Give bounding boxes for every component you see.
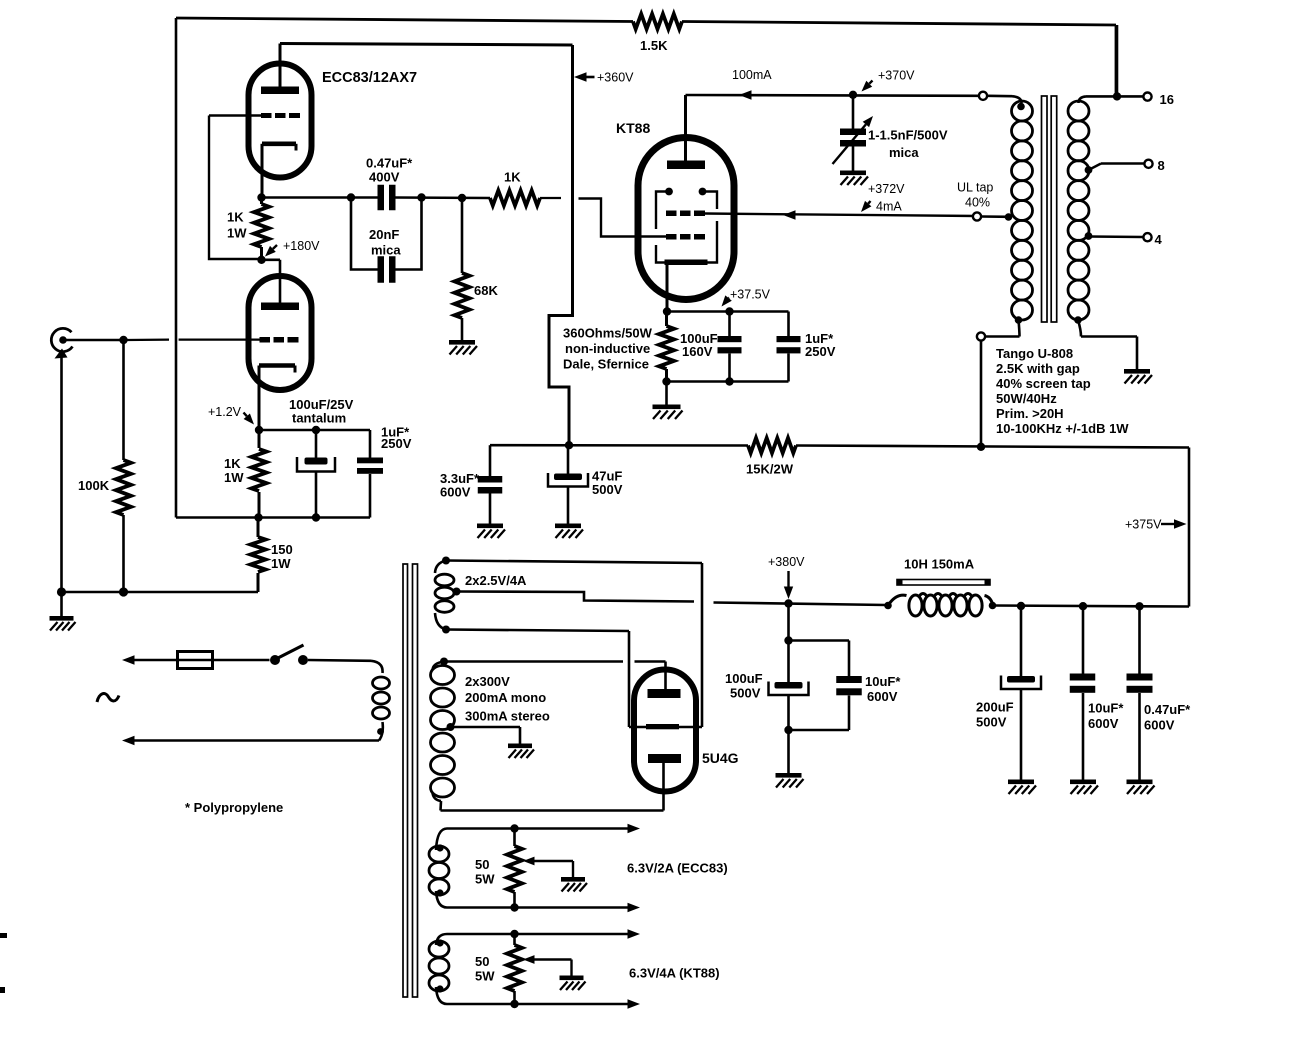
resistor 1.5K feedback bbox=[633, 14, 682, 29]
svg-text:+37.5V: +37.5V bbox=[730, 288, 771, 302]
edge artifact marks bbox=[0, 933, 7, 938]
wire secondary 4 ohm bbox=[1085, 232, 1093, 240]
svg-text:500V: 500V bbox=[730, 686, 761, 701]
wire 2.5V CT to B+ (+380V) bbox=[457, 592, 695, 602]
cathode V2 bbox=[665, 260, 708, 266]
svg-text:200uF: 200uF bbox=[976, 700, 1014, 715]
wire secondary 16 ohm bbox=[1086, 95, 1143, 98]
svg-text:2x300V: 2x300V bbox=[465, 674, 510, 689]
rectifier V3 5U4G bbox=[634, 670, 696, 792]
svg-text:500V: 500V bbox=[592, 482, 623, 497]
resistor 68K bbox=[461, 198, 464, 273]
wire cathode bypass top bbox=[667, 310, 789, 313]
svg-text:1K: 1K bbox=[227, 210, 244, 225]
mains line arrow top bbox=[122, 655, 135, 664]
capacitor 0.47uF* 400V bbox=[378, 185, 385, 211]
OPT secondary winding bbox=[1079, 96, 1087, 103]
svg-text:400V: 400V bbox=[369, 170, 400, 185]
wire input shield down bbox=[60, 356, 63, 592]
svg-text:160V: 160V bbox=[682, 344, 713, 359]
ground 10uF output bbox=[1070, 780, 1096, 785]
terminal 4 ohm bbox=[1143, 233, 1151, 241]
wire secondary 8 ohm bbox=[1085, 166, 1093, 174]
wire choke output rail bbox=[993, 606, 1189, 607]
ground first filter bbox=[787, 730, 790, 773]
ground input bbox=[60, 592, 63, 616]
resistor 150 1W bbox=[257, 518, 260, 538]
svg-text:1W: 1W bbox=[227, 226, 247, 241]
node input junction bbox=[119, 336, 127, 344]
svg-text:Prim. >20H: Prim. >20H bbox=[996, 406, 1064, 421]
heater winding 6.3V/2A + hum pot 50 5W bbox=[436, 829, 447, 851]
PT primary winding bbox=[371, 661, 383, 673]
svg-text:250V: 250V bbox=[805, 344, 836, 359]
PT core bbox=[403, 564, 408, 997]
ground 0.47uF bbox=[1127, 780, 1153, 785]
anode V1a bbox=[261, 303, 299, 311]
ground HV center tap bbox=[508, 744, 532, 749]
triode V1a ECC83 lower bbox=[249, 276, 312, 390]
ground 200uF bbox=[1008, 780, 1034, 785]
capacitor 10uF* 600V output bbox=[1082, 606, 1085, 673]
wire top rail bbox=[176, 18, 633, 22]
choke 10H 150mA bbox=[884, 602, 892, 610]
svg-text:15K/2W: 15K/2W bbox=[746, 462, 794, 477]
switch S1 bbox=[270, 655, 280, 665]
capacitor 100uF/25V tantalum bbox=[315, 430, 318, 458]
node +380V branch bbox=[784, 636, 792, 644]
capacitor 47uF 500V bbox=[567, 445, 570, 473]
svg-text:2x2.5V/4A: 2x2.5V/4A bbox=[465, 573, 527, 588]
choke core bar bbox=[897, 580, 990, 586]
svg-text:360Ohms/50W: 360Ohms/50W bbox=[563, 326, 653, 341]
svg-text:8: 8 bbox=[1158, 158, 1165, 173]
capacitor 100uF 160V bbox=[728, 312, 731, 337]
cathode V1b bbox=[262, 142, 296, 147]
wire feedback from output bbox=[175, 18, 178, 518]
svg-text:10-100KHz +/-1dB 1W: 10-100KHz +/-1dB 1W bbox=[996, 421, 1129, 436]
svg-text:200mA mono: 200mA mono bbox=[465, 690, 546, 705]
svg-text:6.3V/4A (KT88): 6.3V/4A (KT88) bbox=[629, 966, 720, 981]
label +360V bbox=[574, 72, 587, 81]
svg-text:+370V: +370V bbox=[878, 69, 915, 83]
svg-text:+380V: +380V bbox=[768, 555, 805, 569]
svg-text:4: 4 bbox=[1155, 232, 1163, 247]
terminal OPT primary bottom bbox=[977, 332, 985, 340]
wire HV top to rectifier anode bbox=[444, 660, 623, 663]
mains line arrow bottom bbox=[122, 736, 135, 745]
capacitor 200uF 500V bbox=[1020, 606, 1023, 676]
svg-text:16: 16 bbox=[1160, 92, 1174, 107]
capacitor 1uF* 250V cathode bbox=[369, 430, 372, 458]
ground snubber bbox=[840, 171, 866, 176]
wire to KT88 grid bbox=[579, 199, 668, 237]
grid V1b bbox=[261, 113, 272, 118]
resistor 360 Ohms bbox=[665, 312, 668, 327]
svg-text:+360V: +360V bbox=[597, 71, 634, 85]
svg-text:KT88: KT88 bbox=[616, 120, 650, 136]
wire cathode network top bbox=[259, 429, 370, 432]
wire cathode bypass bottom bbox=[667, 380, 789, 383]
capacitor 0.47uF* 600V bbox=[1138, 606, 1141, 673]
resistor 15K/2W bbox=[748, 438, 796, 453]
wire V1b anode to B+ dropper bbox=[280, 44, 573, 46]
anode V2 bbox=[667, 161, 705, 170]
terminal OPT primary top bbox=[979, 92, 987, 100]
svg-text:4mA: 4mA bbox=[876, 200, 902, 214]
wire B+ rail bbox=[490, 444, 748, 447]
wire 2.5V top to rectifier bbox=[446, 561, 702, 564]
svg-text:5W: 5W bbox=[475, 872, 495, 887]
wire 16 ohm to feedback bbox=[1116, 25, 1119, 96]
ground KT88 cathode bbox=[665, 382, 668, 405]
svg-text:+375V: +375V bbox=[1125, 518, 1162, 532]
ground 68K bbox=[449, 340, 475, 345]
svg-text:Tango U-808: Tango U-808 bbox=[996, 346, 1073, 361]
resistor 1K 1W lower bbox=[258, 430, 261, 448]
svg-text:0.47uF*: 0.47uF* bbox=[366, 156, 413, 171]
cathode V1a bbox=[259, 363, 295, 368]
node KT88 cathode bbox=[663, 307, 671, 315]
svg-text:250V: 250V bbox=[381, 436, 412, 451]
terminal 16 ohm bbox=[1143, 93, 1151, 101]
wire after coupling cap bbox=[396, 196, 491, 199]
svg-text:50: 50 bbox=[475, 857, 489, 872]
svg-text:1W: 1W bbox=[224, 470, 244, 485]
svg-text:ECC83/12AX7: ECC83/12AX7 bbox=[322, 70, 417, 86]
wire HV bottom to rectifier anode bbox=[441, 809, 664, 812]
anode 1 V3 bbox=[648, 689, 681, 698]
capacitor 10uF* 600V first bbox=[836, 676, 862, 683]
svg-text:600V: 600V bbox=[440, 485, 471, 500]
svg-text:10H 150mA: 10H 150mA bbox=[904, 557, 975, 572]
svg-text:40%: 40% bbox=[965, 196, 990, 210]
svg-text:10uF*: 10uF* bbox=[865, 674, 901, 689]
resistor 1K grid stopper bbox=[490, 191, 540, 206]
terminal OPT UL tap bbox=[973, 212, 981, 220]
capacitor 1uF* 250V bypass bbox=[787, 312, 790, 337]
wire to 10uF top bbox=[789, 639, 850, 642]
svg-text:Dale, Sfernice: Dale, Sfernice bbox=[563, 357, 649, 372]
svg-text:600V: 600V bbox=[867, 689, 898, 704]
svg-text:mica: mica bbox=[371, 243, 401, 258]
svg-text:100uF: 100uF bbox=[725, 671, 763, 686]
OPT primary winding bbox=[1012, 96, 1022, 103]
PT 2x300V winding bbox=[440, 658, 448, 666]
ground 3.3uF bbox=[477, 524, 503, 529]
resistor 1K 1W upper bbox=[260, 198, 263, 205]
capacitor 1-1.5nF/500V variable bbox=[852, 95, 855, 129]
node +1.2V bbox=[255, 426, 263, 434]
svg-text:1W: 1W bbox=[271, 556, 291, 571]
ground 47uF bbox=[555, 524, 581, 529]
OPT core bbox=[1042, 96, 1048, 322]
svg-text:100mA: 100mA bbox=[732, 68, 772, 82]
ground OPT secondary bbox=[1124, 369, 1150, 374]
svg-text:+372V: +372V bbox=[868, 182, 905, 196]
wire input to grid bbox=[66, 339, 124, 342]
capacitor 20nF mica bbox=[351, 198, 378, 270]
screen grid V2 bbox=[666, 211, 677, 217]
capacitor 100uF 500V bbox=[787, 641, 790, 683]
wire anode to OPT bbox=[686, 94, 979, 97]
svg-text:500V: 500V bbox=[976, 715, 1007, 730]
capacitor 3.3uF* 600V bbox=[489, 445, 492, 476]
svg-text:* Polypropylene: * Polypropylene bbox=[185, 800, 283, 815]
svg-text:5U4G: 5U4G bbox=[702, 750, 739, 766]
wire B+ rail down bbox=[1188, 448, 1191, 607]
svg-text:20nF: 20nF bbox=[369, 227, 399, 242]
wire V1b grid to V1a anode bbox=[209, 116, 262, 260]
node +180V bbox=[257, 256, 265, 264]
wire secondary ground bbox=[1081, 335, 1137, 338]
svg-text:1.5K: 1.5K bbox=[640, 38, 668, 53]
svg-text:2.5K with gap: 2.5K with gap bbox=[996, 361, 1080, 376]
svg-text:mica: mica bbox=[889, 145, 919, 160]
wire cathode network bottom bbox=[176, 516, 370, 519]
svg-text:+1.2V: +1.2V bbox=[208, 405, 242, 419]
svg-text:6.3V/2A (ECC83): 6.3V/2A (ECC83) bbox=[627, 861, 728, 876]
beam plates V2 bbox=[665, 188, 673, 196]
wire SRPP out bbox=[262, 196, 378, 199]
svg-text:50W/40Hz: 50W/40Hz bbox=[996, 391, 1057, 406]
wire 10uF bottom loop bbox=[789, 729, 850, 732]
wire OPT primary feed bbox=[980, 341, 983, 447]
input jack J1 bbox=[51, 328, 72, 351]
svg-text:10uF*: 10uF* bbox=[1088, 701, 1124, 716]
svg-text:+180V: +180V bbox=[283, 239, 320, 253]
grid V1a bbox=[260, 337, 271, 343]
svg-text:100K: 100K bbox=[78, 478, 110, 493]
wire 2.5V bottom to rectifier bbox=[446, 630, 629, 632]
fuse F1 bbox=[178, 652, 213, 669]
heater winding 6.3V/4A + hum pot 50 5W bbox=[436, 934, 447, 945]
svg-text:600V: 600V bbox=[1088, 716, 1119, 731]
svg-text:1-1.5nF/500V: 1-1.5nF/500V bbox=[868, 128, 948, 143]
svg-text:0.47uF*: 0.47uF* bbox=[1144, 702, 1191, 717]
svg-text:UL tap: UL tap bbox=[957, 181, 993, 195]
wire ground bus bottom-left bbox=[62, 591, 259, 594]
svg-text:50: 50 bbox=[475, 954, 489, 969]
wire switch to PT bbox=[308, 659, 371, 662]
wire screen to UL tap bbox=[705, 214, 977, 217]
svg-text:40% screen tap: 40% screen tap bbox=[996, 376, 1091, 391]
tetrode V2 KT88 bbox=[638, 138, 734, 300]
triode V1b ECC83 upper bbox=[249, 64, 312, 178]
svg-text:600V: 600V bbox=[1144, 718, 1175, 733]
anode 2 V3 bbox=[648, 754, 681, 763]
wire HV CT to ground bbox=[451, 726, 521, 729]
PT 2x2.5V/4A winding bbox=[442, 557, 450, 565]
resistor 100K bbox=[122, 340, 125, 460]
svg-text:tantalum: tantalum bbox=[292, 411, 346, 426]
label AC tilde bbox=[97, 694, 119, 702]
svg-text:68K: 68K bbox=[474, 283, 498, 298]
node V1b cathode out bbox=[257, 193, 265, 201]
filament V3 bbox=[629, 726, 702, 729]
svg-text:non-inductive: non-inductive bbox=[565, 341, 650, 356]
anode V1b bbox=[261, 87, 299, 95]
terminal 8 ohm bbox=[1144, 160, 1152, 168]
svg-text:5W: 5W bbox=[475, 969, 495, 984]
svg-text:1K: 1K bbox=[504, 170, 521, 185]
svg-text:300mA stereo: 300mA stereo bbox=[465, 709, 550, 724]
node anode/snubber bbox=[849, 91, 857, 99]
wire +180V to V1a anode bbox=[262, 258, 281, 261]
control grid V2 bbox=[666, 234, 677, 240]
svg-text:1K: 1K bbox=[224, 456, 241, 471]
svg-text:150: 150 bbox=[271, 542, 293, 557]
